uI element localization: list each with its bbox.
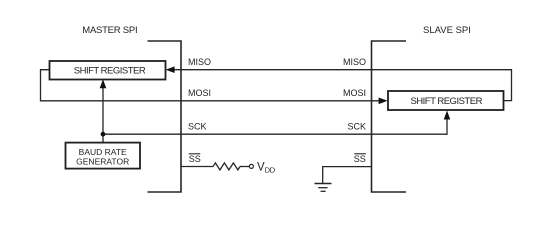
svg-text:MISO: MISO (343, 57, 366, 67)
svg-text:SLAVE SPI: SLAVE SPI (423, 25, 471, 36)
arrowhead MOSI into slave shift register (379, 98, 388, 105)
ground (315, 183, 332, 185)
arrowhead clock into master shift register (100, 79, 107, 88)
svg-text:SS: SS (189, 154, 201, 164)
wire SS slave to ground (323, 167, 372, 183)
svg-text:MISO: MISO (188, 57, 211, 67)
svg-text:SCK: SCK (347, 122, 366, 132)
svg-text:SCK: SCK (188, 122, 207, 132)
node VDD terminal circle (249, 164, 253, 168)
resistor R pull-up (213, 163, 240, 170)
wire baud rate generator to shift register (102, 88, 104, 143)
svg-text:GENERATOR: GENERATOR (76, 156, 129, 166)
wire resistor to VDD terminal (240, 166, 249, 168)
wire SCK (103, 119, 447, 135)
shift register box (master) (50, 61, 166, 80)
baud rate generator box (66, 143, 141, 169)
node junction dot SCK (101, 132, 106, 137)
svg-text:SS: SS (354, 154, 366, 164)
slave SPI boundary bracket (372, 41, 407, 192)
wire MISO (174, 70, 512, 101)
svg-text:MASTER SPI: MASTER SPI (82, 25, 137, 36)
svg-text:SHIFT REGISTER: SHIFT REGISTER (410, 96, 482, 107)
svg-text:MOSI: MOSI (343, 88, 366, 98)
svg-text:SHIFT REGISTER: SHIFT REGISTER (74, 66, 146, 77)
arrowhead MISO into master shift register (166, 66, 175, 73)
arrowhead SCK into slave shift register (444, 111, 451, 120)
shift register box (slave) (388, 91, 504, 110)
wire SS master to pull-up resistor (181, 166, 213, 168)
svg-text:MOSI: MOSI (188, 88, 211, 98)
wire MOSI (41, 70, 380, 101)
master SPI boundary bracket (148, 41, 182, 192)
